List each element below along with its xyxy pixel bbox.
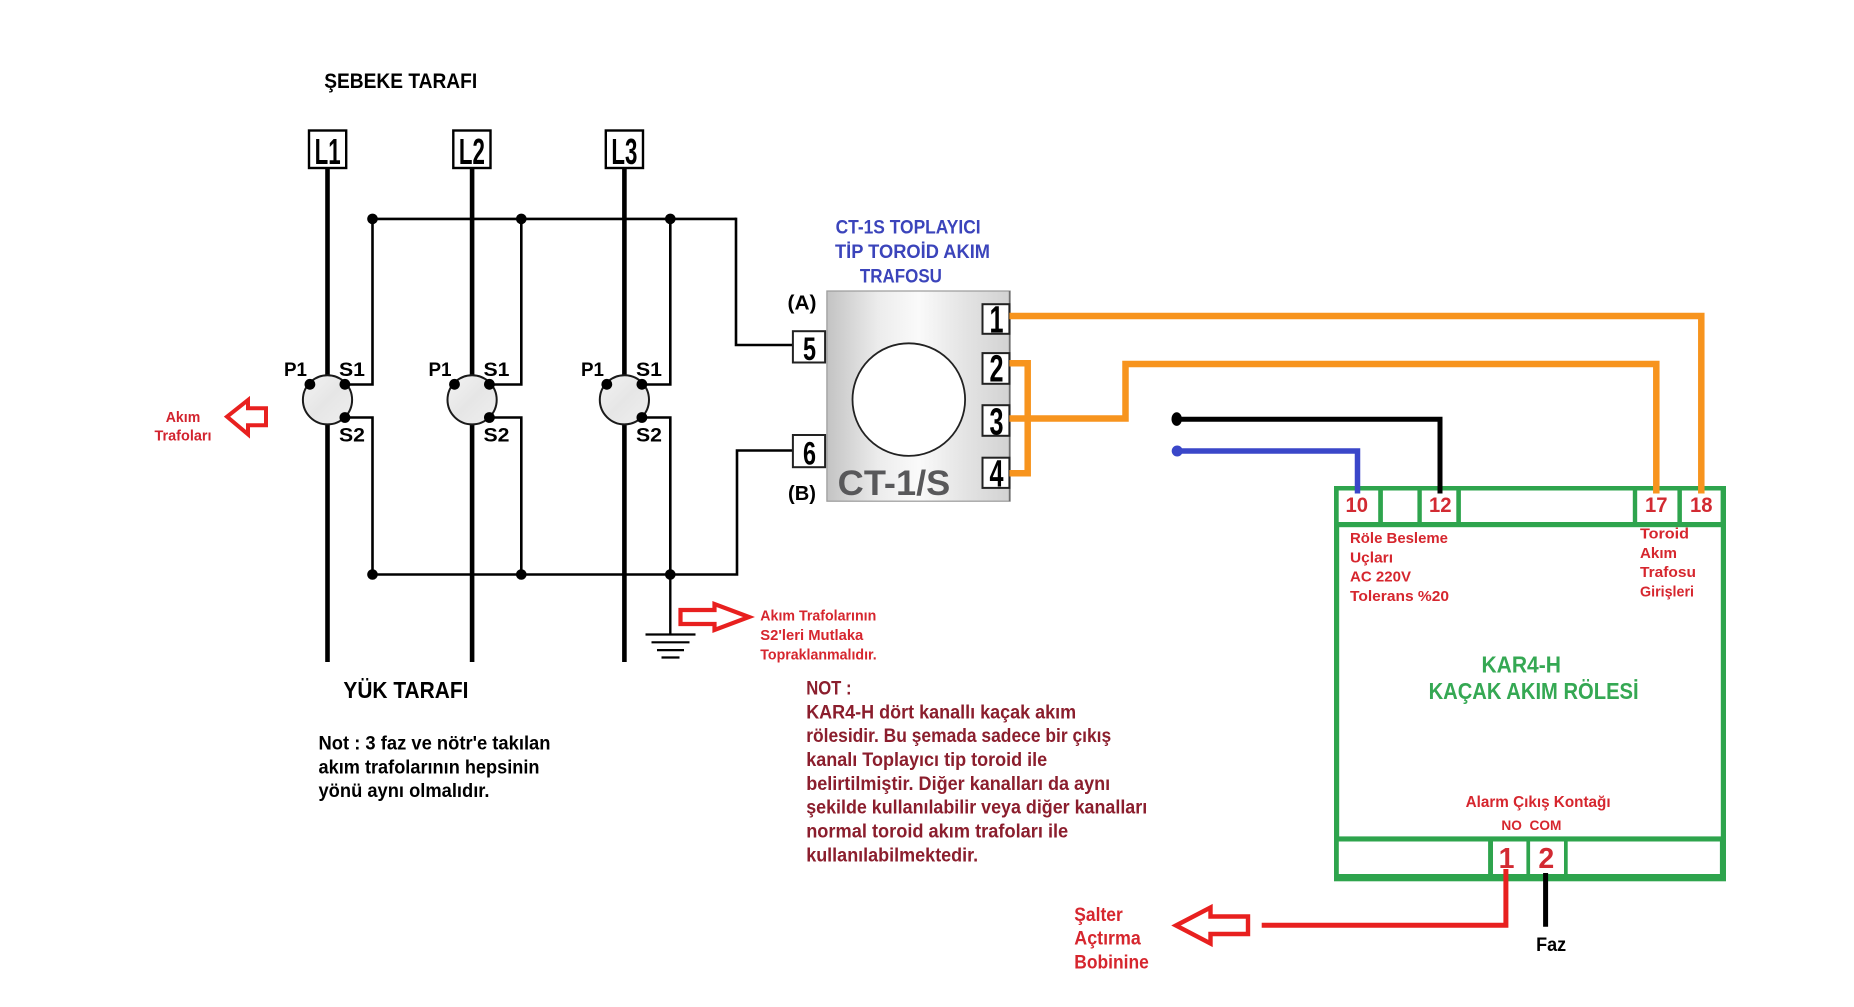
svg-text:S1: S1: [339, 360, 365, 381]
svg-text:12: 12: [1429, 494, 1452, 517]
svg-text:S2: S2: [636, 426, 662, 447]
junction bus top CT2: [516, 214, 527, 225]
label CT-1S toroid title: [835, 217, 990, 288]
wire S2 CT2: [489, 418, 521, 575]
terminal L3: [606, 131, 643, 173]
svg-text:Alarm Çıkış Kontağı: Alarm Çıkış Kontağı: [1466, 794, 1611, 811]
svg-text:kanalı Toplayıcı tip toroid il: kanalı Toplayıcı tip toroid ile: [806, 750, 1047, 771]
wire bus to terminal 5: [736, 218, 793, 345]
junction bus top CT1: [367, 214, 378, 225]
svg-text:P1: P1: [284, 360, 307, 381]
svg-text:TRAFOSU: TRAFOSU: [860, 266, 942, 288]
terminal 5: [793, 331, 825, 367]
svg-text:10: 10: [1346, 494, 1369, 517]
svg-text:Trafoları: Trafoları: [155, 429, 212, 445]
svg-text:CT-1/S: CT-1/S: [838, 464, 951, 503]
wire black Faz: [1543, 873, 1548, 927]
svg-text:P1: P1: [581, 360, 604, 381]
note block NOT: [806, 679, 1147, 867]
annotation arrow S2 ground note: [681, 604, 750, 630]
junction bus bottom CT2: [516, 569, 527, 580]
current transformer CT2: [448, 375, 497, 424]
annotation arrow Akim Trafolari: [227, 400, 266, 434]
pin S2 CT1: [340, 412, 351, 423]
svg-text:L1: L1: [315, 131, 341, 172]
svg-text:(A): (A): [788, 292, 817, 315]
toroid window: [853, 343, 966, 456]
svg-text:1: 1: [990, 300, 1004, 342]
pin S2 CT3: [637, 412, 648, 423]
wire orange bridge terminals 2-4: [1009, 363, 1027, 473]
junction bus bottom CT1: [367, 569, 378, 580]
wire black to terminal 12: [1177, 419, 1440, 493]
svg-text:CT-1S TOPLAYICI: CT-1S TOPLAYICI: [836, 217, 981, 239]
svg-text:şekilde kullanılabilir veya di: şekilde kullanılabilir veya diğer kanall…: [806, 798, 1147, 819]
wire S1 bus top: [373, 218, 737, 221]
label Salter Actirma Bobinine: [1074, 905, 1149, 973]
pin P1 CT1: [305, 379, 316, 390]
svg-text:Not : 3 faz ve nötr'e takılan: Not : 3 faz ve nötr'e takılan: [319, 734, 551, 755]
svg-text:belirtilmiştir. Diğer kanallar: belirtilmiştir. Diğer kanalları da aynı: [806, 774, 1110, 795]
svg-text:akım trafolarının hepsinin: akım trafolarının hepsinin: [319, 757, 540, 778]
svg-text:Topraklanmalıdır.: Topraklanmalıdır.: [760, 647, 876, 664]
node black wire start: [1172, 412, 1182, 426]
label Akim Trafolari: [155, 410, 212, 445]
svg-text:KAR4-H dört kanallı kaçak akım: KAR4-H dört kanallı kaçak akım: [806, 702, 1076, 723]
terminal blank bottom left: [1339, 842, 1488, 875]
terminal 10: [1339, 491, 1379, 523]
terminal blank top: [1383, 491, 1418, 523]
wire phase L1: [325, 168, 330, 662]
svg-text:L2: L2: [459, 131, 485, 172]
svg-text:6: 6: [803, 436, 816, 472]
terminal L2: [453, 131, 490, 173]
terminal 4: [983, 454, 1010, 496]
svg-text:S2'leri Mutlaka: S2'leri Mutlaka: [760, 627, 864, 644]
pin P1 CT2: [449, 379, 460, 390]
svg-text:18: 18: [1690, 494, 1713, 517]
terminal 2: [983, 349, 1010, 391]
svg-text:Şalter: Şalter: [1074, 905, 1123, 926]
label Toroid Akim Trafosu Girisleri: [1640, 526, 1696, 601]
svg-text:normal toroid akım trafoları i: normal toroid akım trafoları ile: [806, 822, 1068, 843]
wire S2 bus bottom to terminal 6: [373, 451, 793, 575]
svg-text:Röle Besleme: Röle Besleme: [1350, 530, 1448, 547]
terminal 17: [1637, 491, 1677, 523]
annotation arrow Salter: [1176, 908, 1248, 944]
svg-text:Uçları: Uçları: [1350, 549, 1393, 566]
svg-text:Toroid: Toroid: [1640, 526, 1689, 543]
wire red alarm NO: [1262, 869, 1506, 925]
svg-text:Tolerans %20: Tolerans %20: [1350, 588, 1449, 605]
svg-text:YÜK TARAFI: YÜK TARAFI: [343, 677, 468, 703]
svg-text:(B): (B): [788, 482, 816, 505]
toroid transformer CT-1/S body: [827, 291, 1010, 501]
wire orange terminal1 to 18: [1009, 316, 1701, 494]
svg-text:2: 2: [1538, 843, 1554, 875]
svg-text:kullanılabilmektedir.: kullanılabilmektedir.: [806, 845, 978, 866]
terminal 12: [1422, 491, 1457, 523]
svg-text:NOT :: NOT :: [806, 679, 851, 700]
wire S2 CT3: [642, 418, 670, 575]
note block load side: [319, 734, 551, 803]
terminal 6: [793, 435, 825, 472]
relay KAR4-H body: [1334, 486, 1726, 881]
wire S1 CT1: [345, 219, 373, 385]
svg-text:5: 5: [803, 331, 816, 367]
svg-text:ŞEBEKE TARAFI: ŞEBEKE TARAFI: [324, 70, 477, 93]
svg-text:S1: S1: [636, 360, 662, 381]
svg-text:Açtırma: Açtırma: [1074, 929, 1141, 950]
wire S1 CT2: [489, 219, 521, 385]
svg-text:3: 3: [990, 402, 1004, 444]
current transformer CT3: [600, 375, 649, 424]
terminal 3: [983, 402, 1010, 444]
wire blue to terminal 10: [1177, 451, 1357, 494]
svg-text:Akım: Akım: [1640, 545, 1677, 562]
ground: [646, 575, 696, 658]
svg-text:L3: L3: [611, 131, 637, 172]
terminal 18: [1682, 491, 1721, 523]
svg-text:S2: S2: [484, 426, 510, 447]
svg-text:KAÇAK AKIM RÖLESİ: KAÇAK AKIM RÖLESİ: [1429, 678, 1639, 704]
svg-text:NO COM: NO COM: [1501, 818, 1561, 833]
wire orange terminal3 to 17: [1009, 364, 1656, 494]
pin P1 CT3: [601, 379, 612, 390]
svg-text:S2: S2: [339, 426, 365, 447]
svg-text:AC 220V: AC 220V: [1350, 569, 1411, 586]
wire S1 CT3: [642, 219, 670, 385]
terminal blank bottom right: [1568, 842, 1720, 875]
pin S1 CT2: [484, 379, 495, 390]
svg-text:17: 17: [1645, 494, 1668, 517]
svg-text:Faz: Faz: [1536, 935, 1566, 956]
terminal 2 alarm: [1530, 842, 1564, 876]
svg-text:KAR4-H: KAR4-H: [1481, 652, 1561, 678]
terminal 1: [983, 300, 1010, 342]
svg-text:Trafosu: Trafosu: [1640, 564, 1696, 581]
svg-text:yönü aynı olmalıdır.: yönü aynı olmalıdır.: [319, 781, 490, 802]
svg-text:2: 2: [990, 349, 1004, 391]
wire S2 CT1: [345, 418, 373, 575]
junction bus bottom CT3: [665, 569, 676, 580]
svg-text:Akım Trafolarının: Akım Trafolarının: [760, 608, 876, 625]
pin S2 CT2: [484, 412, 495, 423]
pin S1 CT1: [340, 379, 351, 390]
svg-text:Girişleri: Girişleri: [1640, 584, 1694, 601]
svg-text:rölesidir. Bu şemada sadece bi: rölesidir. Bu şemada sadece bir çıkış: [806, 726, 1111, 747]
label KAR4-H relay name: [1429, 652, 1639, 705]
label Akim Trafolarinin S2leri: [760, 608, 876, 664]
terminal blank wide top: [1461, 491, 1633, 523]
current transformer CT1: [303, 375, 352, 424]
pin S1 CT3: [637, 379, 648, 390]
svg-text:4: 4: [990, 454, 1004, 496]
wire phase L3: [622, 168, 627, 662]
terminal 1 alarm: [1493, 842, 1526, 876]
svg-text:S1: S1: [484, 360, 510, 381]
toroid body right edge: [1009, 291, 1011, 501]
svg-text:Bobinine: Bobinine: [1074, 952, 1149, 973]
label Role Besleme Uclari: [1350, 530, 1449, 605]
wire phase L2: [470, 168, 475, 662]
junction bus top CT3: [665, 214, 676, 225]
terminal L1: [309, 131, 346, 173]
node blue wire start: [1172, 446, 1183, 457]
svg-text:TİP TOROİD AKIM: TİP TOROİD AKIM: [835, 240, 990, 263]
svg-text:Akım: Akım: [166, 410, 201, 426]
svg-text:P1: P1: [429, 360, 452, 381]
